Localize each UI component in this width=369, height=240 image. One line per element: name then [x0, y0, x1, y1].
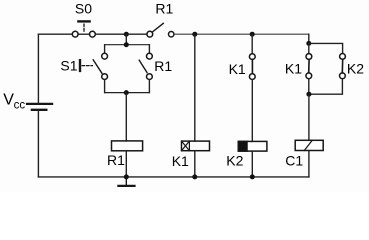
relay contact K2 (NC, parallel right) [340, 54, 346, 79]
wire: K1 coil branch down [194, 34, 196, 141]
ground [118, 177, 134, 186]
wire: K2 coil to bottom rail [251, 151, 253, 177]
wire: left parallel branch to output node [308, 79, 310, 95]
pushbutton S0 (NC) [72, 21, 95, 37]
relay coil K1 (set coil, X box) [182, 141, 210, 151]
wire: latch box top rail [105, 44, 150, 46]
node A: junction to latch branch [124, 32, 129, 37]
pushbutton S1 (NO) [80, 53, 108, 79]
svg-text:K2: K2 [226, 153, 243, 169]
wire: battery positive up to top-left corner [37, 34, 39, 103]
wire: C1 coil to bottom rail [308, 151, 310, 177]
label V_cc [3, 92, 25, 112]
node: parallel contacts output junction [306, 92, 311, 97]
node: K2-coil bottom junction [250, 174, 255, 179]
svg-text:S0: S0 [75, 0, 92, 16]
wire: top rail, corner to S0 [38, 33, 72, 35]
wire: latch left branch lower stub [104, 80, 106, 93]
wire: K1 contact to K2 coil [251, 80, 253, 142]
wire: battery negative down to bottom rail [37, 111, 39, 177]
node: latch output junction [124, 90, 129, 95]
node: parallel contacts input junction [306, 41, 311, 46]
wire: R1 coil to bottom rail [125, 151, 127, 177]
svg-text:K1: K1 [285, 60, 302, 76]
relay coil C1 (slash box) [295, 140, 323, 150]
wire: parallel loop top rail [309, 43, 343, 53]
node: K1-coil branch junction [192, 32, 197, 37]
wire: latch output down to R1 coil [125, 93, 127, 141]
supply V_cc battery [27, 104, 52, 110]
relay coil R1 [112, 141, 143, 151]
relay contact K1 (NC) [249, 54, 255, 80]
relay coil K2 (reset coil, filled box) [238, 141, 267, 151]
svg-text:K2: K2 [347, 60, 364, 76]
node: R1-coil bottom junction [124, 174, 129, 179]
wire: bottom ground rail [38, 176, 309, 178]
relay contact K1 (NC, parallel left) [306, 54, 312, 79]
wire: K1 coil to bottom rail [194, 151, 196, 177]
relay contact R1 (NO, latch) [139, 53, 152, 79]
node: K2-branch junction [250, 32, 255, 37]
svg-text:R1: R1 [107, 152, 125, 168]
wire: node A down into latch box [125, 34, 127, 45]
wire: latch right branch lower stub [148, 80, 150, 93]
wire: latch left branch upper stub [104, 45, 106, 54]
wire: left parallel branch stub [308, 43, 310, 53]
wire: right parallel branch to loop bottom rail [309, 79, 343, 95]
wire: top-right corner into parallel contacts [308, 34, 310, 43]
node: latch box top junction [124, 42, 129, 47]
wire: top rail, R1 contact to right corner [174, 33, 309, 35]
wire: latch right branch upper stub [148, 45, 150, 54]
svg-text:C1: C1 [285, 153, 303, 169]
svg-text:K1: K1 [172, 153, 189, 169]
svg-text:S1: S1 [60, 58, 77, 74]
svg-text:cc: cc [14, 99, 26, 111]
wire: S0 to R1 contact [95, 33, 147, 35]
wire: parallel output down to C1 coil [308, 94, 310, 140]
svg-text:K1: K1 [229, 61, 246, 77]
wire: top rail down to K1 contact [251, 34, 253, 53]
relay contact R1 (NO, top) [147, 23, 174, 37]
svg-text:R1: R1 [154, 58, 172, 74]
wire: latch box bottom rail [105, 92, 150, 94]
node: K1-coil bottom junction [192, 174, 197, 179]
svg-text:R1: R1 [155, 0, 173, 16]
